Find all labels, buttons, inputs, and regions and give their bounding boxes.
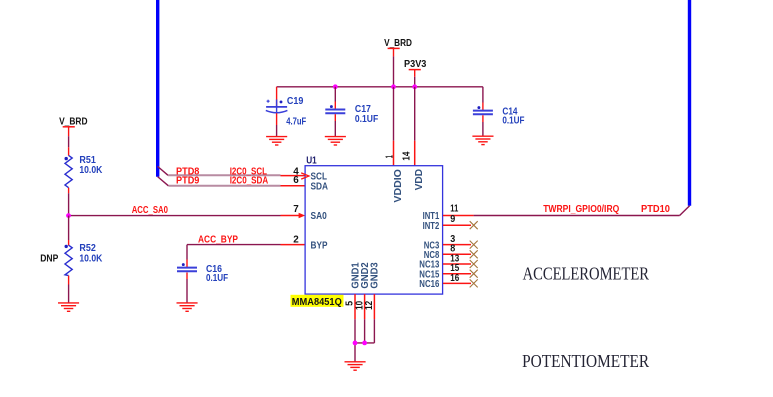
svg-text:C19: C19	[287, 96, 304, 107]
svg-text:16: 16	[450, 273, 459, 284]
wire GND1 down	[354, 319, 356, 361]
pin stub R52 top	[68, 240, 70, 245]
no-connect X NC8	[470, 250, 478, 258]
svg-text:MMA8451Q: MMA8451Q	[292, 297, 342, 308]
pin stub U1 pin13 NC13	[443, 263, 471, 265]
svg-text:INT2: INT2	[423, 221, 440, 232]
svg-text:GND3: GND3	[370, 262, 381, 289]
pin stub R51 top	[68, 147, 70, 155]
clock arrow on SCL pin	[301, 173, 309, 179]
ground below R52	[58, 303, 79, 311]
pin stub U1 pin3 NC3	[443, 244, 471, 246]
svg-text:POTENTIOMETER: POTENTIOMETER	[522, 351, 649, 371]
pin stub U1 pin14 VDD	[414, 141, 416, 166]
svg-text:9: 9	[450, 214, 455, 225]
svg-text:V_BRD: V_BRD	[59, 117, 87, 128]
pin stub U1 pin16 NC16	[443, 282, 471, 284]
svg-text:TWRPI_GPIO0/IRQ: TWRPI_GPIO0/IRQ	[543, 204, 619, 215]
svg-text:VDD: VDD	[414, 169, 425, 191]
wire diagonal to border PTD10	[680, 206, 690, 216]
wire ACC_BYP down to C16	[186, 245, 188, 260]
wire ACC_SA0 horizontal	[69, 215, 281, 217]
wire TWRPI_GPIO0/IRQ	[474, 215, 680, 217]
svg-text:10.0K: 10.0K	[79, 165, 102, 176]
svg-text:10.0K: 10.0K	[79, 253, 102, 264]
svg-text:PTD9: PTD9	[176, 175, 200, 186]
svg-text:ACCELEROMETER: ACCELEROMETER	[523, 263, 650, 283]
wire ACC_BYP horizontal	[187, 244, 281, 246]
svg-text:PTD10: PTD10	[641, 204, 671, 215]
svg-text:SA0: SA0	[311, 211, 328, 222]
wire GND2 down	[364, 319, 366, 343]
wire power rail horizontal	[277, 86, 483, 88]
pin stub U1 pin10 GND2	[364, 294, 366, 319]
wire V_BRD to R51	[68, 136, 70, 147]
TWRPI socket border right segment	[688, 0, 691, 206]
pin stub U1 pin15 NC15	[443, 273, 471, 275]
pin stub C17 top	[334, 102, 336, 110]
wire VDDIO drop	[393, 87, 395, 141]
pin stub U1 pin4 SCL	[281, 175, 306, 177]
svg-text:0.1UF: 0.1UF	[355, 114, 378, 125]
pin stub U1 pin5 GND1	[354, 294, 356, 319]
svg-text:NC16: NC16	[419, 279, 439, 290]
pin stub C19 top	[276, 87, 278, 107]
wire C14 to ground	[482, 122, 484, 136]
pin stub U1 pin9 INT2	[443, 224, 471, 226]
pin stub C14 bottom	[482, 115, 484, 122]
ground below C19	[266, 137, 287, 145]
wire C14 drop	[482, 87, 484, 103]
ground below U1	[345, 362, 366, 370]
capacitor C17	[325, 104, 378, 125]
resistor R52	[65, 243, 103, 275]
svg-text:ACC_BYP: ACC_BYP	[198, 234, 238, 245]
wire C16 to ground	[186, 279, 188, 303]
ground below C16	[177, 303, 198, 311]
power symbol V_BRD left	[59, 117, 87, 137]
power symbol P3V3	[404, 59, 427, 77]
svg-text:V_BRD: V_BRD	[384, 38, 412, 49]
no-connect X NC3	[470, 241, 478, 249]
svg-text:1: 1	[384, 155, 395, 158]
capacitor C19 polarized	[266, 96, 306, 127]
svg-text:P3V3: P3V3	[404, 59, 427, 70]
wire diagonal from border to PTD8	[158, 166, 168, 175]
wire I2C0_SCL (PTD8)	[168, 174, 281, 176]
svg-text:14: 14	[402, 151, 413, 160]
svg-text:2: 2	[293, 235, 299, 246]
pin stub U1 pin7 SA0 with arrow	[281, 213, 306, 218]
pin stub R52 bottom	[68, 276, 70, 285]
svg-text:4.7uF: 4.7uF	[286, 117, 306, 128]
pin stub U1 pin12 GND3	[373, 294, 375, 319]
no-connect X NC13	[470, 260, 478, 268]
capacitor C16	[177, 263, 228, 284]
pin stub U1 pin1 VDDIO	[393, 141, 395, 166]
ground below C17	[325, 137, 346, 145]
wire P3V3 to rail	[414, 77, 416, 87]
wire gnd horizontal join	[355, 342, 374, 344]
no-connect X INT2	[470, 221, 478, 229]
pin stub C17 bottom	[334, 114, 336, 121]
TWRPI socket border left segment	[156, 0, 159, 177]
no-connect X NC15	[470, 270, 478, 278]
capacitor C14	[473, 106, 525, 126]
svg-text:I2C0_SDA: I2C0_SDA	[230, 175, 269, 186]
svg-text:SDA: SDA	[311, 181, 329, 192]
junction node gnd1	[353, 341, 358, 346]
svg-text:12: 12	[364, 301, 375, 310]
svg-text:U1: U1	[306, 156, 317, 167]
svg-text:ACC_SA0: ACC_SA0	[132, 205, 169, 216]
svg-text:6: 6	[293, 175, 299, 186]
junction node gnd2	[362, 341, 367, 346]
pin stub U1 pin8 NC8	[443, 253, 471, 255]
resistor R51	[65, 155, 103, 188]
wire junction to R52	[68, 216, 70, 240]
wire R51 to junction	[68, 193, 70, 215]
junction node rail C17	[333, 84, 338, 89]
svg-text:0.1UF: 0.1UF	[206, 273, 228, 284]
pin stub U1 pin6 SDA	[281, 185, 306, 187]
junction node rail P3V3	[412, 84, 417, 89]
pin stub R51 bottom	[68, 188, 70, 194]
wire C17 to ground	[334, 121, 336, 136]
pin stub C19 bottom	[276, 113, 278, 125]
junction node SA0 divider	[66, 213, 71, 218]
no-connect X NC16	[470, 279, 478, 287]
svg-text:BYP: BYP	[311, 240, 328, 251]
svg-text:11: 11	[450, 203, 458, 214]
svg-text:VDDIO: VDDIO	[393, 169, 404, 203]
pin stub U1 pin2 BYP	[281, 244, 306, 246]
wire V_BRD to rail	[393, 56, 395, 86]
svg-text:7: 7	[293, 204, 299, 215]
wire I2C0_SDA (PTD9)	[168, 185, 280, 187]
junction node rail V_BRD	[391, 84, 396, 89]
wire R52 to ground	[68, 285, 70, 303]
pin stub C16 top	[186, 260, 188, 268]
svg-text:DNP: DNP	[40, 254, 58, 265]
wire diagonal from border to PTD9	[158, 177, 169, 186]
pin stub C14 top	[482, 103, 484, 111]
svg-text:0.1UF: 0.1UF	[502, 115, 524, 126]
power symbol V_BRD top	[384, 38, 412, 57]
wire GND3 down	[373, 319, 375, 343]
wire C17 drop	[334, 87, 336, 102]
wire C19 to ground	[276, 125, 278, 136]
op IC U1 MMA8451Q body	[305, 156, 443, 295]
pin stub C16 bottom	[186, 273, 188, 280]
ground below C14	[472, 136, 493, 144]
part value MMA8451Q highlighted	[291, 295, 344, 308]
pin stub U1 pin11 INT1	[443, 215, 474, 217]
wire VDD drop	[414, 87, 416, 141]
